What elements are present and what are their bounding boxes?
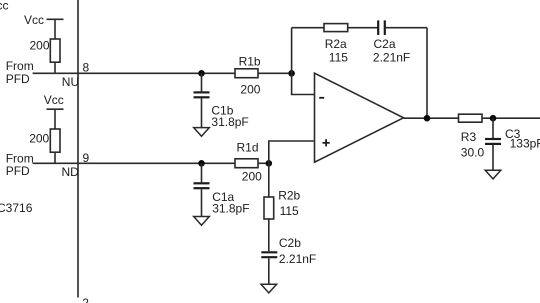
capacitor C2a 2.21nF	[373, 20, 410, 64]
wire ND row (pin 9 net)	[33, 162, 235, 164]
capacitor C1b 31.8pF	[194, 73, 249, 129]
net label ND	[62, 165, 80, 179]
From PFD label (ND input)	[6, 151, 34, 178]
clipped Vcc text at top-left	[0, 0, 9, 13]
pin 9 label	[83, 151, 90, 165]
svg-text:9: 9	[83, 151, 90, 165]
feedback wire left vertical	[291, 28, 293, 74]
wire NU row (pin 8 net)	[33, 72, 235, 74]
svg-text:R1b: R1b	[239, 55, 261, 69]
svg-text:200: 200	[30, 39, 50, 53]
resistor R1b 200	[235, 55, 261, 97]
resistor 200 (NU pull-up)	[30, 39, 61, 74]
svg-text:8: 8	[83, 60, 90, 74]
op-amp non-inverting input marker (+)	[323, 139, 330, 146]
svg-text:30.0: 30.0	[461, 146, 485, 160]
svg-text:From: From	[6, 59, 34, 73]
svg-text:NU: NU	[62, 75, 79, 89]
svg-text:C2b: C2b	[279, 236, 301, 250]
Vcc supply symbol V2 (ND pull-up)	[44, 93, 64, 129]
svg-text:2.21nF: 2.21nF	[279, 252, 316, 266]
ground (C1a)	[194, 217, 210, 226]
feedback wire top left segment	[292, 27, 324, 29]
junction node output / C3	[490, 115, 497, 122]
net label NU	[62, 75, 79, 89]
wire junction to R2b	[268, 163, 270, 197]
junction node inverting input	[288, 70, 295, 77]
svg-text:R2b: R2b	[278, 188, 300, 202]
resistor R2b 115	[264, 188, 301, 219]
svg-text:R1d: R1d	[237, 141, 259, 155]
svg-text:31.8pF: 31.8pF	[211, 115, 248, 129]
capacitor C3 133pF	[485, 118, 540, 170]
IC label C3716	[0, 201, 33, 215]
capacitor C1a 31.8pF	[194, 163, 250, 216]
svg-text:C2a: C2a	[374, 37, 396, 51]
wire to op-amp inverting input	[292, 73, 315, 94]
svg-text:Vcc: Vcc	[24, 13, 44, 27]
op-amp U1	[315, 73, 404, 162]
svg-text:2: 2	[82, 296, 89, 303]
svg-text:Vcc: Vcc	[0, 0, 9, 13]
From PFD label (NU input)	[6, 59, 34, 86]
resistor R3 30.0	[459, 114, 485, 159]
IC boundary line (chip edge)	[77, 0, 79, 298]
resistor 200 (ND pull-up)	[29, 129, 60, 163]
svg-text:R3: R3	[461, 130, 477, 144]
pin 2 label	[82, 296, 89, 303]
svg-text:200: 200	[242, 169, 262, 183]
op-amp inverting input marker (-)	[319, 97, 324, 99]
resistor R2a 115	[324, 24, 348, 65]
feedback wire top right segment	[385, 27, 427, 29]
svg-text:200: 200	[29, 131, 49, 145]
junction node NU / C1b	[198, 70, 205, 77]
svg-text:C3716: C3716	[0, 201, 33, 215]
wire R1b to inverting node	[258, 72, 292, 74]
svg-text:115: 115	[280, 204, 299, 218]
ground (C3)	[485, 170, 501, 179]
svg-text:200: 200	[240, 82, 260, 96]
wire R2b to C2b	[268, 219, 270, 251]
Vcc supply symbol V1 (NU pull-up)	[24, 13, 64, 39]
wire to op-amp non-inverting input	[269, 141, 315, 163]
svg-text:R2a: R2a	[325, 37, 347, 51]
svg-text:115: 115	[329, 51, 348, 65]
wire R1d to non-inverting node	[258, 162, 269, 164]
svg-text:2.21nF: 2.21nF	[373, 51, 410, 65]
ground (C2b)	[261, 284, 277, 293]
svg-text:Vcc: Vcc	[44, 93, 64, 107]
svg-text:133pF: 133pF	[510, 137, 540, 151]
capacitor C2b 2.21nF	[261, 236, 316, 284]
resistor R1d 200	[235, 141, 262, 184]
svg-text:31.8pF: 31.8pF	[212, 202, 249, 216]
junction node non-inverting input	[266, 160, 273, 167]
pin 8 label	[83, 60, 90, 74]
svg-text:PFD: PFD	[6, 72, 30, 86]
svg-text:ND: ND	[62, 165, 80, 179]
wire R2a to C2a	[348, 27, 378, 29]
feedback wire right vertical	[426, 28, 428, 119]
wire op-amp output	[404, 117, 540, 119]
junction node feedback / output	[424, 115, 431, 122]
svg-text:PFD: PFD	[6, 164, 30, 178]
junction node ND / C1a	[198, 160, 205, 167]
ground (C1b)	[194, 128, 210, 137]
